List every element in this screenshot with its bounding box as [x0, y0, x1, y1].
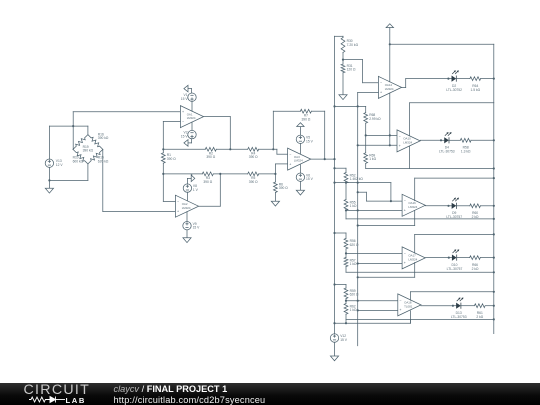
svg-text:2 kΩ: 2 kΩ [476, 315, 483, 319]
svg-text:1.5 kΩ: 1.5 kΩ [470, 88, 480, 92]
svg-text:+: + [399, 144, 401, 148]
svg-text:1 kΩ: 1 kΩ [350, 204, 357, 208]
svg-text:LTL-30753: LTL-30753 [451, 315, 467, 319]
svg-text:15 V: 15 V [306, 177, 314, 181]
svg-text:390 Ω: 390 Ω [203, 180, 212, 184]
svg-text:LM324: LM324 [187, 116, 196, 120]
svg-text:620 kΩ: 620 kΩ [98, 159, 109, 163]
svg-text:2 kΩ: 2 kΩ [472, 215, 479, 219]
svg-text:LM324: LM324 [408, 258, 417, 262]
svg-text:15 V: 15 V [306, 139, 314, 143]
svg-text:−: − [380, 81, 382, 85]
svg-text:−: − [182, 120, 184, 124]
svg-text:+: + [399, 308, 401, 312]
svg-text:620 Ω: 620 Ω [350, 243, 359, 247]
svg-text:1.3 kΩ: 1.3 kΩ [461, 150, 471, 154]
svg-text:−: − [177, 200, 179, 204]
svg-text:390 Ω: 390 Ω [249, 155, 258, 159]
svg-text:−: − [404, 251, 406, 255]
svg-text:LTL-30752: LTL-30752 [446, 88, 462, 92]
svg-text:LM324: LM324 [403, 141, 412, 145]
svg-text:390 Ω: 390 Ω [279, 186, 288, 190]
svg-text:1 kΩ: 1 kΩ [369, 157, 376, 161]
svg-text:120 Ω: 120 Ω [347, 68, 356, 72]
svg-text:LM324: LM324 [385, 87, 394, 91]
svg-text:15 V: 15 V [193, 226, 201, 230]
svg-text:LTL-30757: LTL-30757 [446, 215, 462, 219]
svg-text:15 V: 15 V [340, 338, 348, 342]
svg-text:7.20 kΩ: 7.20 kΩ [347, 43, 359, 47]
svg-text:1.462 kΩ: 1.462 kΩ [350, 177, 364, 181]
svg-text:390 Ω: 390 Ω [301, 117, 310, 121]
svg-text:2 kΩ: 2 kΩ [472, 267, 479, 271]
svg-text:+: + [182, 110, 184, 114]
svg-text:390 kΩ: 390 kΩ [98, 136, 109, 140]
svg-text:TL081: TL081 [404, 305, 413, 309]
svg-text:+: + [404, 209, 406, 213]
svg-text:−: − [399, 298, 401, 302]
svg-text:LM324: LM324 [182, 206, 191, 210]
svg-text:1 kΩ: 1 kΩ [350, 308, 357, 312]
svg-text:−: − [399, 134, 401, 138]
svg-text:−: − [404, 199, 406, 203]
svg-text:LTL-30753: LTL-30753 [439, 150, 455, 154]
svg-text:1 V: 1 V [193, 188, 199, 192]
svg-text:+: + [380, 91, 382, 95]
svg-text:−: − [289, 153, 291, 157]
svg-text:LM324: LM324 [294, 159, 303, 163]
svg-text:390 Ω: 390 Ω [249, 180, 258, 184]
svg-text:620 Ω: 620 Ω [350, 293, 359, 297]
svg-text:390 Ω: 390 Ω [167, 157, 176, 161]
svg-text:1 kΩ: 1 kΩ [350, 262, 357, 266]
svg-text:+: + [404, 261, 406, 265]
svg-text:15 V: 15 V [181, 97, 189, 101]
svg-text:LTL-30757: LTL-30757 [447, 267, 463, 271]
svg-text:15 V: 15 V [181, 134, 189, 138]
svg-text:LM324: LM324 [408, 205, 417, 209]
svg-text:+: + [289, 162, 291, 166]
svg-text:600 kΩ: 600 kΩ [73, 159, 84, 163]
svg-text:2.99 kΩ: 2.99 kΩ [369, 117, 381, 121]
svg-text:390 Ω: 390 Ω [206, 155, 215, 159]
svg-text:12 V: 12 V [56, 163, 64, 167]
svg-text:390 kΩ: 390 kΩ [83, 149, 94, 153]
svg-text:+: + [177, 209, 179, 213]
